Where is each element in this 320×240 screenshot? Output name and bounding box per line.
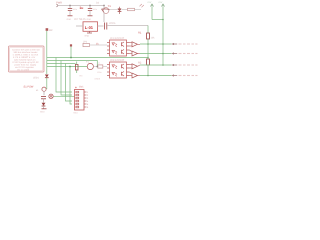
capacitor C1 <box>68 9 72 16</box>
svg-text:LED1: LED1 <box>33 77 39 80</box>
diode D3 on x=46.8 net <box>45 58 49 90</box>
wire bus rail L3 y=63.5 <box>47 63 76 65</box>
wire net x=46.8 vertical down from pin <box>46 31 48 58</box>
wire T1 collector down <box>103 13 105 23</box>
wire vertical net x=163 top to row3 <box>162 7 164 66</box>
resistor R2 vertical pull-up <box>147 59 150 65</box>
resistor R1 label <box>138 32 142 35</box>
svg-text:T1: T1 <box>108 4 112 8</box>
ground pin under IC2 <box>85 31 93 38</box>
svg-text:GND: GND <box>85 35 90 38</box>
junction dot (71,57.5) <box>70 57 72 59</box>
supply symbol +5V at x=163 <box>158 1 164 6</box>
ground under C2 <box>87 16 93 21</box>
svg-text:100n: 100n <box>97 71 101 74</box>
node VIN label <box>56 2 62 5</box>
wire row3 y=65 to port <box>140 64 172 66</box>
diode D4 at (43.5,104) <box>42 103 46 109</box>
svg-text:R2: R2 <box>138 62 142 65</box>
IC2 voltage regulator label <box>74 18 86 21</box>
svg-text:IC2 78L05: IC2 78L05 <box>74 18 86 21</box>
jumper JP2 at (84,45) <box>83 40 107 46</box>
connector SV1 value text below <box>74 112 79 115</box>
junction dot at (89,5.5) <box>89 5 91 7</box>
wire bus rail L1 y=57.5 <box>47 57 148 59</box>
LED arrows near R5 <box>140 4 144 7</box>
gate buffer G3 <box>130 64 141 69</box>
gate buffer G1 <box>130 42 141 47</box>
wire bus drop x=65.5 <box>66 64 73 102</box>
svg-text:1u: 1u <box>79 6 83 10</box>
wire row2 y=53.5 to port <box>140 53 172 55</box>
capacitor C2 <box>88 9 92 16</box>
resistor R1 vertical pull-up <box>147 33 156 39</box>
wire corner from x=152 to x=163 at y=19.5 <box>152 19 163 21</box>
svg-text:rev 1.1 2009: rev 1.1 2009 <box>17 68 30 71</box>
wire top rail y=5.5 <box>57 5 104 7</box>
IC1 optocoupler box <box>107 40 130 56</box>
resistor R2 label <box>138 62 142 65</box>
fuse F1 circle at (90,66.5) <box>86 60 93 69</box>
ground under C1 <box>67 16 73 21</box>
wire reg output right <box>98 25 104 27</box>
svg-text:L-01: L-01 <box>85 25 94 30</box>
resistor R3 vertical at (76.7,64-71) <box>75 62 78 74</box>
wire bus drop x=56 <box>56 58 72 93</box>
pin symbol node at (47,29.5) <box>46 28 53 32</box>
junction dot (148,75.5) <box>147 75 149 77</box>
wire reg input left <box>76 25 83 27</box>
wire row4 y=75.5 to port <box>140 75 172 77</box>
junction dot at (104,5.5) <box>103 5 105 7</box>
ground bottom left <box>40 109 47 114</box>
svg-text:+: + <box>75 86 77 90</box>
svg-text:R1: R1 <box>138 32 142 35</box>
wire R2 bottom to row4 <box>147 65 149 76</box>
svg-text:VCC5: VCC5 <box>109 22 116 25</box>
junction dot (163,65) <box>162 64 164 66</box>
svg-text:JP2: JP2 <box>83 40 88 43</box>
supply pin symbol left end of top rail <box>57 4 59 7</box>
junction dot (148,44) <box>147 43 149 45</box>
wire bus drop x=70 <box>70 67 72 105</box>
junction dot (148,57.5) <box>147 57 149 59</box>
svg-text:GND: GND <box>40 111 45 114</box>
svg-text:S1 PSW: S1 PSW <box>24 86 34 89</box>
IC3 optocoupler label <box>110 59 125 62</box>
svg-text:+5V: +5V <box>158 1 163 4</box>
IC3 optocoupler box <box>107 62 130 78</box>
svg-text:GND: GND <box>67 18 72 21</box>
net label above 5V rail <box>109 22 116 25</box>
IC2 voltage regulator box <box>83 22 98 32</box>
wire R2 top stub <box>147 58 149 60</box>
wire 5V rail y=25.5 to pullup column <box>108 25 149 27</box>
wire cap C2 drop <box>89 6 91 9</box>
switch S1 plates at (43.5,97.5) <box>41 97 46 103</box>
jumper plug X1 in series at x=105 <box>105 23 107 30</box>
note box frame <box>9 46 45 72</box>
junction dot at (70,5.5) <box>69 5 71 7</box>
note box text <box>12 48 40 71</box>
junction dot (163,53.5) <box>162 53 164 55</box>
port flag P3 <box>171 64 197 66</box>
value text red near rail <box>79 6 83 10</box>
port flag P4 <box>171 74 197 76</box>
connector pin symbol at (51,98) <box>49 94 75 98</box>
gate buffer G2 <box>130 50 141 56</box>
wire row1 y=44 to port <box>140 43 172 45</box>
svg-text:100n: 100n <box>73 8 77 11</box>
IC1 optocoupler label <box>110 37 125 40</box>
port flag P1 <box>171 43 197 45</box>
wire green stub rail to R1 <box>147 26 149 34</box>
svg-text:IC3 ILD213T: IC3 ILD213T <box>110 59 125 62</box>
wire bus drop x=61 <box>61 61 72 96</box>
svg-text:MP: MP <box>49 29 53 32</box>
svg-text:GND8: GND8 <box>95 78 101 81</box>
wire cap C1 drop <box>69 6 71 9</box>
junction dot (70,66.5) <box>69 66 71 68</box>
testpoint pin at (71,50) <box>70 44 72 57</box>
wire bus rail L4 y=66.5 <box>47 66 87 68</box>
wire T1 to D1 <box>110 9 119 11</box>
resistor R5 horizontal <box>128 8 142 10</box>
wire F1 to bead <box>93 66 97 68</box>
wire R1 bottom to row1 <box>147 39 149 44</box>
connector SV1 header box <box>75 86 90 110</box>
svg-text:+5V: +5V <box>147 1 152 4</box>
transistor T1 <box>102 4 112 13</box>
svg-text:IC1 ILD213T: IC1 ILD213T <box>110 37 125 40</box>
svg-text:100n: 100n <box>93 8 97 11</box>
wire D1 to R5 <box>121 9 127 11</box>
diode D1 vertical <box>118 7 122 14</box>
LED LED2 circle at (43.5,90.5) <box>42 87 46 95</box>
junction dot (163,19.5) <box>162 19 164 21</box>
label text above T1 area <box>96 1 100 4</box>
svg-text:SV1: SV1 <box>79 86 84 89</box>
bead L2 at (100,66) <box>95 62 108 81</box>
text SV1 labels bottom left <box>24 86 40 93</box>
label text under note box <box>33 77 39 80</box>
port flag P2 <box>171 52 197 54</box>
svg-text:GND: GND <box>87 18 92 21</box>
supply symbol +5V at x=152 <box>147 1 153 19</box>
junction dot (163,44) <box>162 43 164 45</box>
wire R1 column row1 to rail y=57.5 <box>147 44 149 58</box>
gate buffer G4 <box>130 72 141 78</box>
wire bus rail L2 y=60.5 <box>47 61 98 67</box>
